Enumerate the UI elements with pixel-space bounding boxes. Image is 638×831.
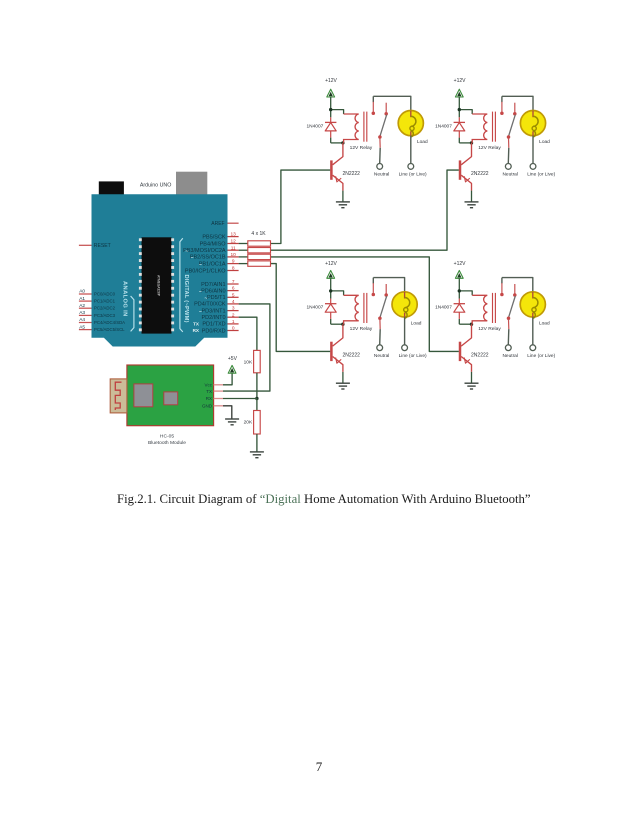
svg-text:2N2222: 2N2222 [342, 171, 360, 177]
svg-text:Fig.2.1. Circuit Diagram of “D: Fig.2.1. Circuit Diagram of “Digital Hom… [117, 492, 531, 506]
svg-text:HC-05: HC-05 [160, 434, 174, 440]
svg-text:DIGITAL (~PWM): DIGITAL (~PWM) [183, 275, 189, 323]
svg-text:7: 7 [232, 279, 235, 285]
svg-text:2: 2 [232, 312, 235, 318]
svg-text:1N4007: 1N4007 [306, 305, 323, 311]
svg-text:12V Relay: 12V Relay [478, 326, 501, 332]
svg-text:Vcc: Vcc [204, 383, 212, 388]
svg-text:+12V: +12V [454, 261, 466, 267]
svg-text:2N2222: 2N2222 [471, 171, 489, 177]
svg-text:+12V: +12V [325, 261, 337, 267]
svg-text:RX: RX [206, 396, 212, 401]
svg-text:GND: GND [202, 404, 213, 409]
svg-text:9: 9 [232, 259, 235, 265]
svg-text:A5: A5 [79, 324, 85, 330]
svg-text:11: 11 [231, 245, 236, 251]
svg-text:PC1/ADC1: PC1/ADC1 [94, 299, 116, 304]
svg-text:Bluetooth Module: Bluetooth Module [148, 440, 186, 446]
svg-text:PC5/ADC5/SCL: PC5/ADC5/SCL [94, 327, 125, 332]
svg-text:12: 12 [231, 239, 237, 245]
svg-text:13: 13 [231, 232, 237, 238]
svg-text:PD0/RXD: PD0/RXD [202, 328, 226, 334]
svg-text:PD6/AIN0: PD6/AIN0 [201, 288, 225, 294]
svg-text:4: 4 [232, 299, 235, 305]
svg-text:PB0/ICP1/CLKO: PB0/ICP1/CLKO [185, 268, 226, 274]
svg-text:Load: Load [417, 139, 428, 145]
svg-text:PD2/INT0: PD2/INT0 [201, 315, 225, 321]
svg-text:PD3/INT1: PD3/INT1 [201, 308, 225, 314]
svg-text:1N4007: 1N4007 [306, 123, 323, 129]
svg-text:PC3/ADC3: PC3/ADC3 [94, 313, 116, 318]
svg-text:~: ~ [199, 263, 202, 268]
svg-text:PB3/MOSI/OC2A: PB3/MOSI/OC2A [183, 248, 226, 254]
svg-text:ATMEGA328P: ATMEGA328P [157, 275, 161, 296]
svg-text:PB2/SS/OC1B: PB2/SS/OC1B [190, 255, 226, 261]
svg-text:5: 5 [232, 292, 235, 298]
svg-text:PB4/MISO: PB4/MISO [200, 241, 227, 247]
svg-text:12V Relay: 12V Relay [478, 145, 501, 151]
svg-text:8: 8 [232, 266, 235, 272]
svg-text:~: ~ [185, 250, 188, 255]
svg-text:AREF: AREF [211, 221, 224, 227]
svg-text:Neutral: Neutral [374, 172, 389, 178]
svg-text:Load: Load [539, 139, 550, 145]
svg-text:A2: A2 [79, 303, 85, 309]
svg-text:Arduino UNO: Arduino UNO [140, 182, 172, 188]
svg-text:Neutral: Neutral [502, 353, 517, 359]
svg-text:ANALOG IN: ANALOG IN [121, 281, 127, 317]
svg-text:3: 3 [232, 306, 235, 312]
svg-text:A0: A0 [79, 289, 85, 295]
svg-text:PB1/OC1A: PB1/OC1A [199, 261, 226, 267]
svg-text:RESET: RESET [94, 243, 111, 249]
svg-text:PD4/T0/XCK: PD4/T0/XCK [194, 302, 226, 308]
svg-text:4 x 1K: 4 x 1K [251, 231, 266, 237]
svg-text:1N4007: 1N4007 [435, 123, 452, 129]
svg-text:+12V: +12V [454, 78, 466, 84]
svg-text:PD5/T1: PD5/T1 [207, 295, 226, 301]
svg-text:1: 1 [232, 319, 235, 325]
svg-text:Line (or Live): Line (or Live) [527, 172, 555, 178]
svg-text:PC4/ADC4/SDA: PC4/ADC4/SDA [94, 320, 125, 325]
svg-text:Neutral: Neutral [374, 353, 389, 359]
svg-text:A4: A4 [79, 317, 85, 323]
svg-text:Neutral: Neutral [502, 172, 517, 178]
svg-text:2N2222: 2N2222 [471, 352, 489, 358]
svg-text:A1: A1 [79, 296, 85, 302]
svg-text:PB5/SCK: PB5/SCK [202, 234, 226, 240]
svg-text:~: ~ [199, 290, 202, 295]
svg-text:20K: 20K [244, 420, 253, 426]
svg-text:10: 10 [231, 252, 237, 258]
svg-text:PD7/AIN1: PD7/AIN1 [201, 282, 225, 288]
svg-text:1N4007: 1N4007 [435, 305, 452, 311]
svg-text:6: 6 [232, 286, 235, 292]
svg-text:PC2/ADC2: PC2/ADC2 [94, 306, 116, 311]
svg-text:7: 7 [316, 759, 323, 774]
svg-text:+12V: +12V [325, 78, 337, 84]
svg-text:TX: TX [193, 322, 200, 327]
svg-text:RX: RX [193, 328, 200, 333]
svg-text:0: 0 [232, 326, 235, 332]
svg-text:~: ~ [191, 256, 194, 261]
svg-text:A3: A3 [79, 310, 85, 316]
svg-text:Load: Load [539, 321, 550, 327]
svg-text:Line (or Live): Line (or Live) [527, 353, 555, 359]
svg-text:TX: TX [206, 389, 212, 394]
svg-text:+5V: +5V [228, 356, 238, 362]
svg-text:PD1/TXD: PD1/TXD [202, 322, 225, 328]
svg-text:Load: Load [411, 321, 422, 327]
svg-text:Line (or Live): Line (or Live) [399, 172, 427, 178]
svg-text:PC0/ADC0: PC0/ADC0 [94, 292, 116, 297]
svg-text:Line (or Live): Line (or Live) [399, 353, 427, 359]
svg-text:12V Relay: 12V Relay [350, 145, 373, 151]
svg-text:10K: 10K [244, 360, 253, 366]
svg-text:12V Relay: 12V Relay [350, 326, 373, 332]
svg-text:2N2222: 2N2222 [342, 352, 360, 358]
